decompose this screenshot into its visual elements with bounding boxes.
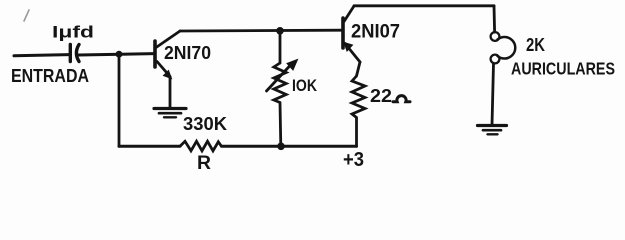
wire right vertical to phones — [493, 6, 496, 32]
wire rail A collector Q1 to base Q2 — [180, 29, 342, 33]
svg-text:AURICULARES: AURICULARES — [511, 59, 615, 79]
wire capacitor to base — [79, 54, 155, 55]
svg-text:IOK: IOK — [292, 76, 318, 95]
potentiometer 10K — [274, 63, 286, 103]
transistor Q1 2N170 — [155, 31, 180, 77]
wire input left — [14, 55, 69, 56]
svg-text:330K: 330K — [183, 114, 227, 134]
ground under Q1 — [154, 109, 186, 118]
wire rail B top — [354, 4, 494, 7]
omega glyph — [393, 96, 410, 102]
wire left vertical bias — [118, 54, 121, 146]
transistor Q2 2N107 — [343, 6, 360, 62]
svg-text:2NI07: 2NI07 — [351, 22, 400, 43]
arrow emitter Q2 — [344, 43, 353, 52]
wire 22ohm down — [355, 118, 358, 147]
wire emitter Q2 to resistor — [357, 62, 361, 76]
node dot rail A — [276, 27, 284, 35]
wire bottom rail left — [119, 145, 180, 148]
svg-text:22: 22 — [370, 86, 392, 106]
resistor 330K — [180, 141, 222, 151]
wire phones to ground — [492, 64, 494, 126]
svg-text:ENTRADA: ENTRADA — [11, 66, 89, 86]
stray mark top-left — [24, 10, 29, 21]
wire emitter Q1 down — [169, 77, 172, 108]
svg-text:2K: 2K — [526, 35, 545, 55]
headphone jack terminal top — [491, 32, 500, 41]
wire pot top — [279, 31, 282, 63]
node dot bottom rail — [277, 143, 285, 151]
arrow pot wiper — [267, 60, 298, 92]
svg-text:Iμfd: Iμfd — [52, 23, 94, 42]
wire bottom rail right — [222, 145, 357, 148]
arrow emitter Q1 — [164, 71, 172, 79]
node junction dot base — [116, 51, 123, 58]
headphone jack terminal bottom — [491, 55, 500, 64]
ground under phones — [478, 126, 507, 135]
capacitor C1 1ufd — [70, 45, 79, 62]
svg-text:2NI70: 2NI70 — [164, 43, 211, 63]
resistor 22 ohm — [352, 76, 365, 118]
svg-text:+3: +3 — [343, 149, 364, 171]
wire pot bottom — [279, 103, 283, 147]
svg-text:R: R — [197, 152, 211, 173]
headphone arc — [498, 37, 516, 59]
